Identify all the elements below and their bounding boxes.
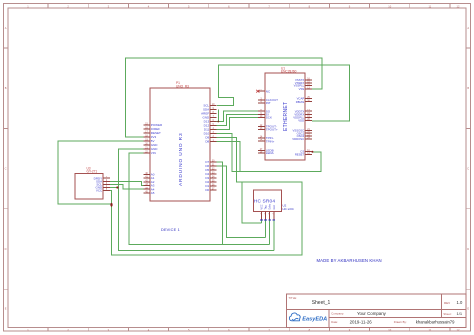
svg-text:SCK: SCK <box>266 116 272 120</box>
svg-text:TPOUT+: TPOUT+ <box>266 127 278 131</box>
svg-text:6: 6 <box>228 328 230 332</box>
svg-text:khanakbarhussain79: khanakbarhussain79 <box>416 319 455 324</box>
svg-text:VSS: VSS <box>299 87 305 91</box>
svg-text:Trig: Trig <box>265 205 268 210</box>
svg-text:RBIAS: RBIAS <box>296 100 305 104</box>
svg-text:D: D <box>467 247 469 251</box>
svg-text:2: 2 <box>67 328 69 332</box>
svg-text:10: 10 <box>388 328 391 332</box>
svg-text:RESET: RESET <box>295 153 305 157</box>
svg-text:5: 5 <box>188 328 190 332</box>
svg-text:REV: REV <box>444 301 450 305</box>
svg-text:ENC28J60: ENC28J60 <box>281 70 297 74</box>
svg-text:2019-11-26: 2019-11-26 <box>350 319 373 324</box>
svg-text:EasyEDA: EasyEDA <box>302 316 327 322</box>
svg-text:C: C <box>467 167 469 171</box>
svg-text:A5: A5 <box>151 191 155 195</box>
svg-text:UNO_R3: UNO_R3 <box>176 85 189 89</box>
svg-text:HC SR04: HC SR04 <box>254 199 275 205</box>
svg-text:VCC: VCC <box>96 189 103 193</box>
svg-text:Date:: Date: <box>331 320 338 324</box>
svg-text:TPIN+: TPIN+ <box>266 139 275 143</box>
svg-text:7: 7 <box>268 328 270 332</box>
svg-text:VCC: VCC <box>260 204 263 209</box>
svg-text:NC: NC <box>266 89 271 93</box>
svg-text:DEVICE 1: DEVICE 1 <box>161 228 180 232</box>
svg-text:D8: D8 <box>205 140 209 144</box>
svg-text:11: 11 <box>429 328 432 332</box>
svg-text:Sheet:: Sheet: <box>443 312 451 316</box>
svg-text:Company:: Company: <box>331 312 344 316</box>
svg-text:1: 1 <box>27 328 29 332</box>
svg-text:E: E <box>467 306 469 310</box>
svg-text:B: B <box>467 86 469 90</box>
svg-text:D: D <box>5 247 7 251</box>
svg-text:GY-271: GY-271 <box>87 170 98 174</box>
svg-text:MADE BY AKBARHUSEN KHAN: MADE BY AKBARHUSEN KHAN <box>317 258 382 263</box>
svg-text:ARDUINO UNO R3: ARDUINO UNO R3 <box>178 133 184 186</box>
svg-text:4: 4 <box>148 328 150 332</box>
svg-text:VDD: VDD <box>298 119 304 123</box>
svg-text:TITLE:: TITLE: <box>289 296 298 300</box>
svg-text:B: B <box>5 86 7 90</box>
svg-text:Sheet_1: Sheet_1 <box>312 300 331 306</box>
svg-text:9: 9 <box>349 328 351 332</box>
svg-text:ETHERNET: ETHERNET <box>283 102 289 131</box>
svg-text:E: E <box>5 306 7 310</box>
svg-text:A: A <box>5 26 7 30</box>
svg-text:Your Company: Your Company <box>357 311 387 316</box>
svg-text:1.0: 1.0 <box>457 300 463 305</box>
svg-text:VIN: VIN <box>151 151 156 155</box>
svg-text:A: A <box>467 26 469 30</box>
svg-text:LEDA: LEDA <box>266 151 274 155</box>
svg-text:12: 12 <box>457 328 460 332</box>
svg-text:Gnd: Gnd <box>273 204 276 209</box>
svg-text:INT: INT <box>266 101 271 105</box>
svg-text:C: C <box>5 167 7 171</box>
svg-text:1/1: 1/1 <box>457 311 463 316</box>
svg-text:Echo: Echo <box>269 203 272 209</box>
svg-text:8: 8 <box>309 328 311 332</box>
svg-text:D0: D0 <box>205 188 209 192</box>
svg-text:3: 3 <box>108 328 110 332</box>
svg-text:VDDOSC: VDDOSC <box>292 137 304 141</box>
svg-text:Drawn By:: Drawn By: <box>394 320 407 324</box>
svg-text:HC sr04: HC sr04 <box>283 207 294 211</box>
